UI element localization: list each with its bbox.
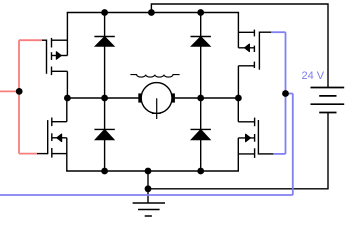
body arrow Q1 [56,52,61,59]
diode D3 cathode bar [94,128,114,130]
wire red gate net [0,40,42,153]
red top gate wire [19,39,42,41]
diode D2 triangle [191,37,210,47]
node mid rail / Q2 [235,95,242,102]
blue jog at node [286,93,293,95]
node mid rail / D2 [197,95,204,102]
blue top gate wire [271,31,285,33]
diode D4 (bottom-right) [191,98,211,171]
node bottom rail / ground [145,168,152,175]
wire ground stem [147,171,149,203]
channel segment Q3 top [51,118,53,127]
wire mid rail right [175,97,239,99]
diode D3 (bottom-left) [94,98,114,171]
source stub Q1 [52,70,68,72]
red vertical [18,40,20,153]
battery B1 plate long [311,103,345,105]
channel segment Q1 bottom [51,67,53,76]
body arrow Q4 [246,134,251,141]
body stub Q3 [52,137,67,139]
channel segment Q2 mid [253,46,255,52]
body arrow Q3 [57,134,62,141]
channel segment Q3 bottom [51,148,53,158]
diode D4 cathode bar [191,128,211,130]
source vertical Q2 [237,66,239,98]
channel segment Q2 bottom [253,62,255,68]
motor M1 shaft [156,98,158,119]
transistor Q2 (top-right P-MOSFET) [238,13,271,99]
source stub Q4 [238,153,254,155]
drain vertical Q3 [66,98,68,122]
channel segment Q3 mid [51,133,53,141]
wire battery positive feed [151,4,328,88]
node blue net [282,90,289,97]
battery B1 plate long top [311,87,345,89]
source stub Q3 [52,153,67,155]
gate bar Q2 [258,32,260,70]
ground bar 2 [138,209,160,211]
wire battery negative [148,113,328,189]
motor M1 shaft tick [152,112,161,114]
red stub to left edge [0,90,19,92]
body-source vertical Q4 [237,138,239,171]
channel segment Q4 bottom [254,148,256,158]
node top rail / D1 [101,9,108,16]
node top rail / D2 [197,9,204,16]
source vertical Q1 [66,71,68,98]
inductor L1 (motor winding coil) [130,75,179,78]
wire blue gate net [0,32,293,195]
diode D1 triangle [95,37,114,47]
blue vertical B [292,94,294,196]
node red net [16,88,23,95]
node battery negative / ground [145,185,152,192]
diode D2 lead [200,13,202,99]
drain stub Q2 [238,31,254,33]
diode D1 cathode bar [94,36,114,38]
drain stub Q1 [52,39,68,41]
channel segment Q2 top [253,30,255,37]
body-source vertical Q3 [66,138,68,171]
battery B1 plate short [319,95,336,97]
transistor Q3 (bottom-left N-MOSFET) [37,98,67,171]
node bottom rail / D3 [101,168,108,175]
diode D1 lead [104,13,106,99]
node mid rail / Q1 source [64,95,71,102]
gate pin stub Q1 [42,39,47,41]
channel segment Q1 top [51,38,53,48]
node bottom rail / D4 [197,168,204,175]
red bottom gate wire [19,153,37,155]
body stub Q2 [238,47,254,49]
svg-text:24 V: 24 V [302,70,325,82]
gate bar Q4 [257,120,259,155]
body stub Q4 [238,137,254,139]
drain-body vertical Q1 [66,13,68,56]
wire top rail [67,12,239,14]
motor M1 left brush [138,93,141,102]
drain stub Q3 [52,121,67,123]
drain vertical Q4 [237,98,239,122]
motor M1 right brush [172,93,175,102]
blue bottom gate wire [273,153,285,155]
diode D4 triangle [191,129,210,140]
body arrow Q2 [245,44,250,51]
gate bar Q1 [46,40,48,74]
diode D3 triangle [95,129,114,140]
diode D1 (top-left) [94,13,114,99]
gate pin stub Q3 [37,153,48,155]
gate bar Q3 [47,120,49,154]
channel segment Q4 top [254,118,256,127]
transistor Q1 (top-left P-MOSFET) [42,13,68,99]
node top rail / battery feed [148,9,155,16]
gate pin stub Q4 [258,153,273,155]
battery B1 plate short bottom [319,112,336,114]
wire bottom rail [66,170,239,172]
gate pin stub Q2 [259,31,271,33]
diode D2 (top-right) [191,13,211,99]
wire mid rail left [67,97,138,99]
blue vertical A [285,32,287,154]
node mid rail / D1 [101,95,108,102]
motor M1 body [141,83,172,114]
source stub Q2 [238,65,254,67]
channel segment Q1 mid [51,52,53,60]
blue bottom long wire [0,194,293,196]
drain-body vertical Q2 [237,13,239,48]
body stub Q1 [52,55,68,57]
diode D4 lead [200,98,202,171]
drain stub Q4 [238,121,254,123]
diode D3 lead [104,98,106,171]
diode D2 cathode bar [191,36,211,38]
channel segment Q4 mid [254,134,256,142]
transistor Q4 (bottom-right N-MOSFET) [238,98,273,171]
ground bar 3 [145,215,152,217]
ground bar 1 [133,202,165,204]
